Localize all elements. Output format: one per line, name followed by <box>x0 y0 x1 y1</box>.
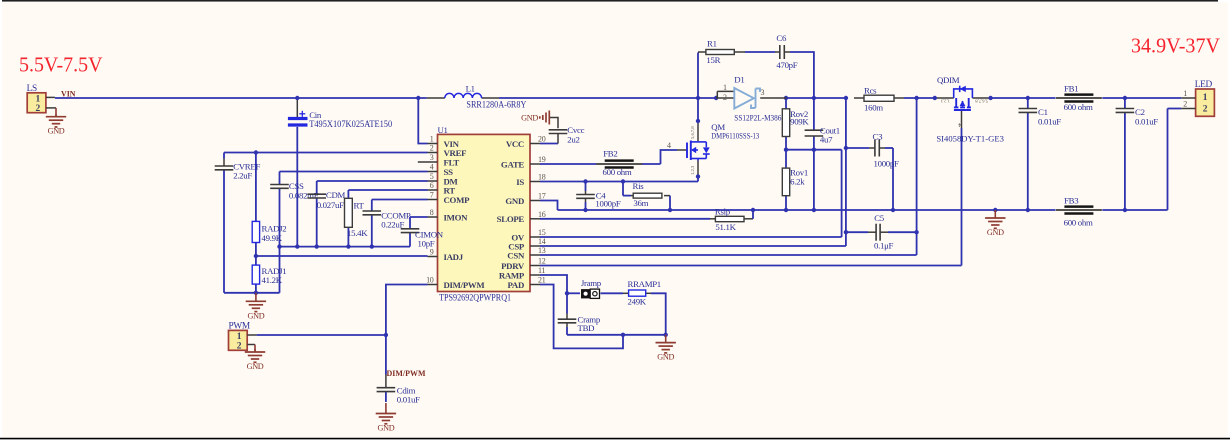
junction dots IS net <box>583 119 700 184</box>
wire OV net (pin15 to Rov divider) <box>540 150 842 237</box>
svg-text:GND: GND <box>377 424 394 433</box>
svg-text:LS: LS <box>27 84 37 94</box>
ground at LS <box>55 115 57 117</box>
svg-text:10: 10 <box>426 276 434 285</box>
wire Rov2 leads <box>785 98 787 150</box>
svg-text:51.1K: 51.1K <box>715 222 736 232</box>
resistor Rslp <box>715 207 744 232</box>
wire IADJ net (pin9 to RADJ divider) <box>256 255 428 257</box>
svg-text:4: 4 <box>430 163 434 172</box>
svg-text:1: 1 <box>1203 93 1208 103</box>
svg-text:13: 13 <box>538 246 546 255</box>
svg-text:Jramp: Jramp <box>581 278 602 288</box>
wire left analog ground bus <box>256 233 410 293</box>
svg-text:5.5V-7.5V: 5.5V-7.5V <box>19 55 103 77</box>
svg-text:DIM/PWM: DIM/PWM <box>444 280 486 290</box>
ground rail symbol (right) <box>994 210 996 218</box>
svg-text:CSN: CSN <box>507 250 525 260</box>
svg-text:12: 12 <box>538 257 546 266</box>
svg-text:9: 9 <box>430 248 434 257</box>
capacitor C1 <box>1019 107 1062 127</box>
wire RADJ2 column from VREF <box>255 153 257 293</box>
wire Ris right lead down <box>669 196 671 210</box>
U1 right pins with numbers and names <box>497 135 546 290</box>
svg-text:SS: SS <box>444 167 454 177</box>
sheet border top line <box>2 0 1218 2</box>
wire C1 column <box>1027 98 1029 210</box>
capacitor Cdim <box>377 375 420 405</box>
wire IS net (pin18 to QM source, C4, Ris) <box>540 182 698 196</box>
svg-text:1000pF: 1000pF <box>595 199 620 209</box>
resistor RADJ2 <box>252 221 286 243</box>
svg-text:470pF: 470pF <box>776 60 797 70</box>
svg-text:C3: C3 <box>873 131 884 141</box>
jumper Jramp <box>581 278 602 298</box>
svg-text:CDM: CDM <box>326 190 346 200</box>
svg-text:C6: C6 <box>776 33 787 43</box>
svg-text:GND: GND <box>247 311 264 320</box>
svg-text:16: 16 <box>538 210 546 219</box>
wire CSN net (pin13 to Rcs right) <box>540 98 917 255</box>
wire SLOPE net (pin16 to Rslp) <box>540 210 753 219</box>
svg-text:PDRV: PDRV <box>501 261 525 271</box>
capacitor CCOMP <box>363 210 411 229</box>
svg-text:10pF: 10pF <box>418 239 435 249</box>
resistor Rov1 <box>782 168 808 196</box>
resistor Rcs <box>864 85 894 112</box>
svg-text:34.9V-37V: 34.9V-37V <box>1131 35 1220 57</box>
resistor RADJ1 <box>252 265 286 285</box>
svg-text:IADJ: IADJ <box>444 252 464 262</box>
transistor QDIM (P-MOSFET, horizontal) <box>936 75 1004 143</box>
capacitor Cramp <box>558 314 601 334</box>
svg-text:GND: GND <box>247 362 264 371</box>
capacitor CIMON <box>401 229 444 249</box>
wire CSS lower lead to bus <box>279 189 281 247</box>
svg-text:0.027uF: 0.027uF <box>317 200 344 210</box>
svg-text:U1: U1 <box>438 125 448 135</box>
svg-text:GND: GND <box>657 353 674 362</box>
connector LS <box>27 84 56 117</box>
svg-text:L1: L1 <box>466 84 475 94</box>
svg-text:GND: GND <box>48 127 65 136</box>
svg-text:2: 2 <box>1183 99 1187 108</box>
wire RT net (pin6 to RT) <box>348 190 427 198</box>
svg-text:249K: 249K <box>628 297 647 307</box>
svg-text:18: 18 <box>538 173 546 182</box>
wire CSP net (pin14 to Rcs left / C3 / C5) <box>540 98 846 246</box>
svg-text:1000pF: 1000pF <box>874 158 899 168</box>
svg-text:14: 14 <box>538 237 546 246</box>
svg-text:TBD: TBD <box>578 323 595 333</box>
wire SS net (pin4 to CSS) <box>280 172 428 185</box>
capacitor C3 <box>873 131 899 168</box>
power ground near Cvcc (rotated) <box>521 111 549 125</box>
svg-text:0.082mF: 0.082mF <box>289 191 319 201</box>
svg-text:7: 7 <box>430 191 434 200</box>
svg-text:600 ohm: 600 ohm <box>1064 218 1093 228</box>
wire C2 column <box>1124 98 1126 210</box>
U1 left pins with numbers and names <box>418 135 486 290</box>
wire Cin vertical <box>296 98 298 247</box>
ground below Cdim <box>385 403 387 414</box>
svg-text:FLT: FLT <box>444 157 460 167</box>
junction dots RAMP / PAD / PWM <box>384 291 668 337</box>
svg-text:C1: C1 <box>1038 107 1048 117</box>
diode D1 (schottky) <box>716 74 791 122</box>
svg-text:0.22uF: 0.22uF <box>381 219 404 229</box>
wire GND net (pin17 drop and ground rail) <box>540 201 1168 211</box>
resistor Rov2 <box>782 109 809 137</box>
capacitor C2 <box>1116 107 1159 127</box>
ground at RRAMP1/Cramp <box>665 335 667 343</box>
svg-text:1: 1 <box>723 83 727 92</box>
svg-text:GND: GND <box>505 196 524 206</box>
wire IMON net (pin8 to CIMON) <box>410 217 428 229</box>
wire QDIM rail stubs <box>935 97 991 99</box>
ground at PWM <box>254 349 256 352</box>
svg-text:17: 17 <box>538 192 546 201</box>
ferrite bead FB3 <box>1056 195 1102 227</box>
capacitor Cout1 <box>805 126 840 145</box>
transistor QM (N-MOSFET) <box>687 122 759 175</box>
junction dots on VIN rail <box>295 96 1127 100</box>
wire R1 branch and C6 loop <box>698 52 814 98</box>
svg-text:IMON: IMON <box>444 212 469 222</box>
svg-text:41.2K: 41.2K <box>262 275 283 285</box>
capacitor CVREF <box>215 159 261 181</box>
svg-text:VREF: VREF <box>444 148 467 158</box>
svg-text:SI4058DY-T1-GE3: SI4058DY-T1-GE3 <box>936 133 1004 143</box>
svg-text:DMP6110SSS-13: DMP6110SSS-13 <box>711 130 759 140</box>
svg-text:11: 11 <box>538 266 545 275</box>
svg-text:QDIM: QDIM <box>937 75 960 85</box>
svg-text:6.2k: 6.2k <box>790 177 805 187</box>
wire C3 row <box>846 148 893 210</box>
wire Rcs leads on rail <box>854 97 904 99</box>
svg-text:20: 20 <box>538 135 546 144</box>
capacitor C6 <box>776 33 797 70</box>
svg-text:2: 2 <box>1203 104 1208 114</box>
svg-text:RT: RT <box>444 185 456 195</box>
IC U1 TPS92692QPWPRQ1 <box>438 125 531 302</box>
ferrite bead FB2 <box>596 148 642 177</box>
svg-text:GND: GND <box>987 228 1004 237</box>
wire RT lower lead to bus <box>347 227 349 246</box>
wire PDRV net (pin12 to QDIM gate) <box>540 110 962 266</box>
svg-text:FB1: FB1 <box>1064 84 1078 94</box>
svg-text:COMP: COMP <box>444 195 471 205</box>
svg-text:21: 21 <box>538 276 546 285</box>
svg-text:3: 3 <box>430 153 434 162</box>
svg-text:R1: R1 <box>707 39 717 49</box>
wire C4 lower lead <box>585 202 587 210</box>
svg-text:2: 2 <box>430 144 434 153</box>
svg-text:LED: LED <box>1195 80 1213 90</box>
resistor RRAMP1 <box>628 279 661 307</box>
capacitor Cin (polarized) <box>288 110 393 129</box>
svg-text:0.01uF: 0.01uF <box>397 395 420 405</box>
wire VIN rail (top) <box>55 97 1181 99</box>
wire QM drain to rail <box>697 98 699 141</box>
svg-text:15.4K: 15.4K <box>347 228 368 238</box>
wire VCC net (pin20 to Cvcc) <box>540 118 558 144</box>
wire QM source to IS <box>697 161 699 182</box>
svg-text:600 ohm: 600 ohm <box>1064 102 1093 112</box>
svg-text:RT: RT <box>354 201 365 211</box>
svg-text:0.01uF: 0.01uF <box>1135 116 1158 126</box>
svg-text:3: 3 <box>761 88 765 97</box>
wire DIM/PWM net (pin10 to PWM connector and Cdim) <box>257 285 428 403</box>
capacitor CSS <box>270 181 319 201</box>
svg-text:SLOPE: SLOPE <box>497 214 525 224</box>
wire C5 row <box>846 231 917 233</box>
wire CVREF lower lead to ground point <box>224 171 256 293</box>
svg-text:2.2uF: 2.2uF <box>233 171 252 181</box>
ground left analog <box>255 293 257 302</box>
svg-text:2: 2 <box>237 342 242 352</box>
svg-text:DIM/PWM: DIM/PWM <box>387 368 427 378</box>
svg-text:RADJ2: RADJ2 <box>262 224 287 234</box>
wire RRAMP1 output down to ground corner <box>601 293 666 335</box>
svg-text:VIN: VIN <box>61 89 76 99</box>
svg-text:0.1μF: 0.1μF <box>874 241 894 251</box>
svg-text:RAMP: RAMP <box>499 270 525 280</box>
junction dots left column <box>254 150 374 295</box>
wire PAD net (pin21 loop to ground run) <box>540 285 623 349</box>
svg-text:PWM: PWM <box>229 322 250 332</box>
svg-text:600 ohm: 600 ohm <box>603 167 632 177</box>
capacitor C5 <box>874 213 894 251</box>
svg-text:GATE: GATE <box>501 159 525 169</box>
svg-text:5: 5 <box>430 172 434 181</box>
svg-text:VCC: VCC <box>506 139 524 149</box>
svg-text:1: 1 <box>1183 89 1187 98</box>
sheet border bottom line <box>0 438 1230 440</box>
svg-text:4u7: 4u7 <box>820 134 833 144</box>
svg-text:15: 15 <box>538 228 546 237</box>
svg-text:FB2: FB2 <box>603 148 617 158</box>
svg-text:8: 8 <box>430 208 434 217</box>
wire Rov1 leads <box>785 150 787 210</box>
svg-text:GND: GND <box>521 113 538 122</box>
svg-text:PAD: PAD <box>507 280 524 290</box>
svg-text:49.9K: 49.9K <box>262 233 283 243</box>
svg-text:IS: IS <box>516 177 524 187</box>
svg-text:0.01uF: 0.01uF <box>1038 116 1061 126</box>
connector PWM <box>229 322 257 352</box>
connector LED <box>1181 80 1214 116</box>
wire Cramp column and bottom ground run <box>567 293 666 335</box>
wire CDM lower lead to bus <box>316 199 318 247</box>
svg-text:CSS: CSS <box>289 181 304 191</box>
junction dots OV divider and C3/C5 <box>784 146 919 235</box>
wire VREF net (pin2 to CVREF / RADJ2) <box>224 153 428 159</box>
inductor L1 <box>427 84 527 110</box>
svg-text:2: 2 <box>723 93 727 102</box>
svg-text:T495X107K025ATE150: T495X107K025ATE150 <box>309 119 392 129</box>
junction dots on ground rail <box>583 208 1127 212</box>
svg-text:Rslp: Rslp <box>715 207 731 217</box>
ferrite bead FB1 <box>1056 84 1102 112</box>
svg-text:1: 1 <box>430 135 434 144</box>
svg-text:SRR1280A-6R8Y: SRR1280A-6R8Y <box>466 100 526 110</box>
capacitor C4 <box>576 191 621 209</box>
wire CCOMP lower lead to bus <box>371 216 373 247</box>
svg-text:2u2: 2u2 <box>567 135 579 145</box>
svg-text:Ris: Ris <box>633 181 645 191</box>
wire Cout1 column <box>813 98 815 210</box>
svg-text:D1: D1 <box>734 74 744 84</box>
capacitor CDM <box>307 190 345 210</box>
svg-text:19: 19 <box>538 155 546 164</box>
svg-text:TPS92692QPWPRQ1: TPS92692QPWPRQ1 <box>439 292 511 302</box>
svg-text:4: 4 <box>667 141 671 150</box>
svg-text:RRAMP1: RRAMP1 <box>628 279 661 289</box>
wire COMP net (pin7 to CCOMP) <box>372 200 428 212</box>
svg-text:160m: 160m <box>864 102 883 112</box>
svg-text:15R: 15R <box>706 55 720 65</box>
resistor R1 <box>706 39 734 66</box>
wire VIN drop to U1 pin 1 <box>418 98 427 144</box>
svg-text:36m: 36m <box>633 198 648 208</box>
wire DM net (pin5 to CDM) <box>317 181 428 194</box>
wire RAMP net (pin11 to Jramp, Cramp) <box>540 275 580 293</box>
resistor RT <box>345 198 369 238</box>
svg-text:2: 2 <box>35 104 40 114</box>
svg-text:FB3: FB3 <box>1064 195 1079 205</box>
svg-text:C5: C5 <box>874 213 885 223</box>
wire GATE net (pin19 through FB2 to QM gate) <box>540 150 687 164</box>
svg-text:C2: C2 <box>1135 107 1145 117</box>
wire LED return (pin2 down to ground rail) <box>1168 109 1182 211</box>
svg-text:909K: 909K <box>790 117 809 127</box>
svg-text:6: 6 <box>430 181 434 190</box>
resistor Ris <box>631 181 662 208</box>
capacitor Cvcc <box>549 125 585 144</box>
svg-text:Rcs: Rcs <box>864 85 877 95</box>
